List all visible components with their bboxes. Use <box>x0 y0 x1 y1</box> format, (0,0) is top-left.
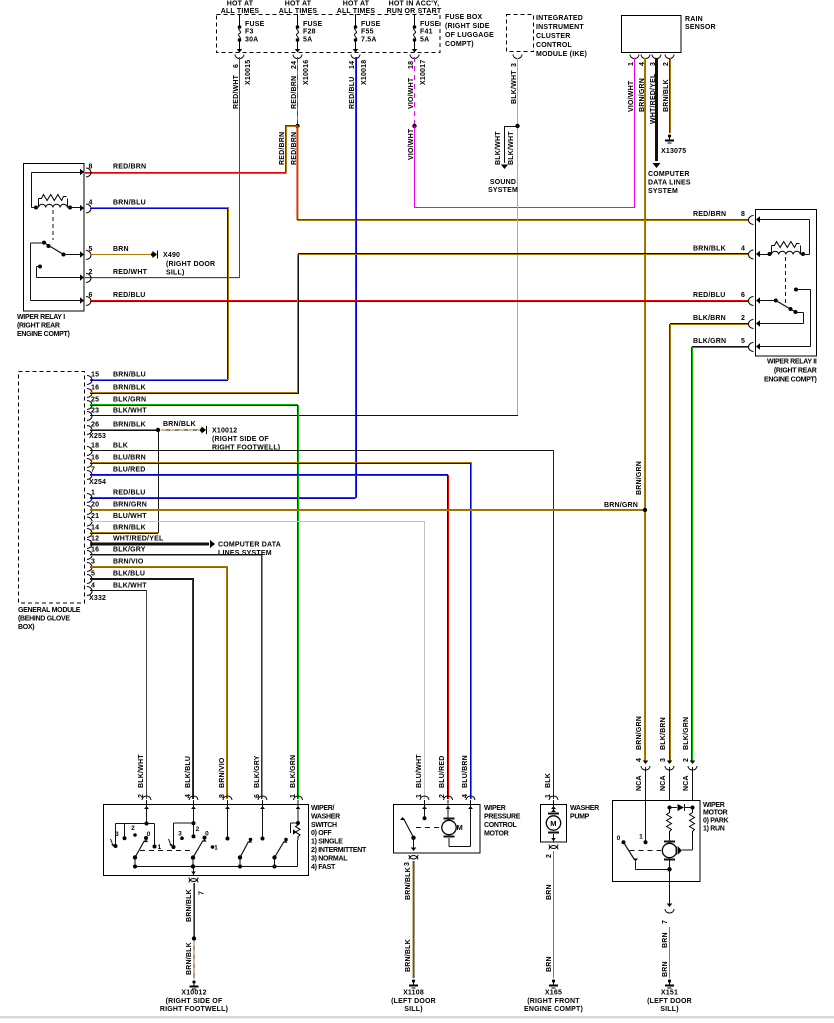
washer pump top connector <box>549 796 558 800</box>
switch group C internals <box>227 805 229 838</box>
svg-text:30A: 30A <box>245 37 258 44</box>
wire WHT/RED/YEL rain sensor pin 3 to computer data lines <box>655 58 658 161</box>
svg-text:BLK/GRN: BLK/GRN <box>693 338 726 345</box>
junction VIO/WHT <box>412 124 416 128</box>
wire RED/BRN fuse F28 dashed segment <box>297 57 299 126</box>
ground X10012 (right side of right footwell) <box>192 980 195 983</box>
svg-text:7.5A: 7.5A <box>361 37 377 44</box>
wire BRN/VIO general module pin 3 to wiper washer switch pin 8 <box>90 566 228 568</box>
svg-text:(RIGHT SIDE OF: (RIGHT SIDE OF <box>212 436 269 443</box>
switch pin 7 bottom connector <box>189 878 198 882</box>
wiper motor box <box>613 801 701 882</box>
wire BRN/BLK rain sensor pin 2 to ground X13075 <box>669 58 671 133</box>
wire BRN/BLK pressure motor pin 3 to ground X1108 <box>412 861 414 978</box>
svg-text:SYSTEM: SYSTEM <box>648 188 678 195</box>
svg-text:ALL TIMES: ALL TIMES <box>221 8 260 15</box>
junction X253 <box>156 428 160 432</box>
general module box <box>19 372 85 604</box>
svg-text:OF LUGGAGE: OF LUGGAGE <box>445 32 494 39</box>
wire RED/BLU relay I pin 6 to relay II pin 6 <box>90 300 748 302</box>
general module pin 4 (BLK/WHT) connector <box>87 587 92 596</box>
wire BRN wiper motor pin 7 to ground X151 <box>669 927 671 978</box>
relay I pin 2 contact <box>38 265 42 269</box>
washer pump bottom connector <box>549 845 558 849</box>
svg-text:BLK/GRY: BLK/GRY <box>113 547 146 554</box>
wiper motor top connector <box>667 761 673 765</box>
pressure motor motor M <box>442 820 456 834</box>
switch top connector <box>189 796 198 800</box>
svg-text:26: 26 <box>91 422 99 429</box>
svg-text:RED/BRN: RED/BRN <box>291 76 298 109</box>
svg-text:7: 7 <box>91 467 95 474</box>
fuse F41 5A <box>414 14 416 26</box>
fuse F3 30A <box>239 14 241 26</box>
svg-text:F55: F55 <box>361 29 374 36</box>
wiper motor dashed link <box>630 850 662 852</box>
svg-text:BRN/VIO: BRN/VIO <box>219 757 226 788</box>
svg-text:M: M <box>550 819 556 828</box>
ground X1108 (left door sill) <box>412 979 415 982</box>
pressure motor top connector <box>444 796 453 800</box>
svg-text:3: 3 <box>91 559 95 566</box>
svg-text:VIO/WHT: VIO/WHT <box>408 128 415 160</box>
svg-text:1) RUN: 1) RUN <box>703 826 725 833</box>
wire BLK/GRY general module pin 16 to wiper washer switch pin 6 <box>90 554 263 556</box>
svg-text:HOT IN ACC'Y,: HOT IN ACC'Y, <box>389 1 440 8</box>
general module pin 23 (BLK/WHT) connector <box>87 412 92 421</box>
svg-text:BLU/BRN: BLU/BRN <box>113 455 146 462</box>
svg-text:1: 1 <box>628 62 635 66</box>
svg-text:RED/BLU: RED/BLU <box>693 292 726 299</box>
svg-text:BRN: BRN <box>662 932 669 948</box>
wire BRN/BLK general module pin 16 to relay II pin 4 <box>90 392 298 394</box>
junction BLK/WHT sound system branch <box>515 124 519 128</box>
svg-text:X490: X490 <box>163 252 180 259</box>
svg-text:BLK/BRN: BLK/BRN <box>660 717 667 750</box>
svg-text:RUN OR START: RUN OR START <box>387 8 442 15</box>
svg-text:BRN/BLK: BRN/BLK <box>405 939 412 972</box>
washer pump box <box>541 805 567 843</box>
fuse box (right side of luggage compt) <box>217 15 441 53</box>
svg-text:6: 6 <box>89 292 93 299</box>
relay I coil-arm dashed link <box>52 210 54 240</box>
svg-text:BLU/WHT: BLU/WHT <box>416 754 423 788</box>
svg-text:BRN/BLK: BRN/BLK <box>405 867 412 900</box>
svg-text:ENGINE COMPT): ENGINE COMPT) <box>17 331 70 338</box>
svg-text:DATA LINES: DATA LINES <box>648 180 691 187</box>
svg-text:5: 5 <box>741 338 745 345</box>
svg-text:2: 2 <box>138 794 145 798</box>
svg-text:RED/BRN: RED/BRN <box>693 211 726 218</box>
svg-text:BRN/GRN: BRN/GRN <box>636 461 643 495</box>
svg-text:24: 24 <box>291 61 298 69</box>
wiper relay II box <box>756 210 817 357</box>
fuse F28 5A <box>297 14 299 26</box>
svg-text:BRN/BLK: BRN/BLK <box>113 525 146 532</box>
svg-text:BRN/GRN: BRN/GRN <box>113 502 147 509</box>
svg-text:RIGHT FOOTWELL): RIGHT FOOTWELL) <box>160 1006 228 1013</box>
svg-text:1) SINGLE: 1) SINGLE <box>311 839 343 846</box>
svg-text:X10015: X10015 <box>245 60 252 85</box>
wire BRN/BLK dashed to ground X10012 <box>193 941 195 979</box>
wire BRN washer pump pin 2 to ground X165 <box>553 851 555 978</box>
svg-text:X151: X151 <box>661 990 678 997</box>
svg-text:3: 3 <box>178 831 182 838</box>
svg-text:COMPUTER DATA: COMPUTER DATA <box>218 542 281 549</box>
wire BLU/WHT general module pin 21 to pressure motor pin 1 <box>90 521 425 523</box>
svg-text:23: 23 <box>91 408 99 415</box>
wire BRN relay I pin 5 to X490 <box>90 254 153 256</box>
relay II arm contact to pin 2 <box>796 312 804 314</box>
svg-text:2: 2 <box>741 315 745 322</box>
svg-text:COMPT): COMPT) <box>445 41 474 48</box>
svg-text:4: 4 <box>91 583 95 590</box>
svg-text:RED/WHT: RED/WHT <box>113 269 148 276</box>
inline connector X490 (right door sill) <box>151 253 155 257</box>
wire BRN/BLK dashed to X10012 <box>161 429 202 431</box>
switch intermittent resistor from pin 1 <box>297 805 299 822</box>
svg-text:ALL TIMES: ALL TIMES <box>337 8 376 15</box>
svg-text:X1108: X1108 <box>403 990 424 997</box>
svg-text:X10012: X10012 <box>212 428 237 435</box>
wiper motor top connector <box>690 761 696 765</box>
svg-text:F3: F3 <box>245 29 254 36</box>
svg-text:HOT AT: HOT AT <box>227 1 254 8</box>
wire RED/BRN branch to wiper relay I pin 8 <box>285 125 298 127</box>
svg-text:BLK/WHT: BLK/WHT <box>495 131 502 165</box>
relay II internal: pin8 feed <box>760 219 810 221</box>
svg-text:5: 5 <box>91 571 95 578</box>
relay II pin 5 connector <box>756 343 760 349</box>
general module pin 12 (WHT/RED/YEL) connector <box>87 540 92 549</box>
svg-text:WIPER: WIPER <box>703 802 725 809</box>
wire BLU/BRN general module pin 16 to pressure motor pin 4 <box>90 462 472 464</box>
svg-text:BRN/BLK: BRN/BLK <box>186 942 193 975</box>
svg-text:5: 5 <box>89 246 93 253</box>
relay II pin 6 connector <box>756 297 760 303</box>
svg-text:BOX): BOX) <box>18 624 34 631</box>
svg-text:BRN/BLK: BRN/BLK <box>163 421 196 428</box>
svg-text:6: 6 <box>741 292 745 299</box>
svg-text:BRN/BLU: BRN/BLU <box>113 200 146 207</box>
wire BLK/WHT general module pin 4 to wiper washer switch pin 2 <box>90 590 147 592</box>
svg-text:(RIGHT REAR: (RIGHT REAR <box>17 323 60 330</box>
svg-text:1: 1 <box>214 845 218 852</box>
svg-text:SILL): SILL) <box>660 1006 679 1013</box>
svg-text:X165: X165 <box>545 990 562 997</box>
svg-text:BLK/WHT: BLK/WHT <box>508 131 515 165</box>
relay II coil-arm dashed link <box>785 257 787 303</box>
svg-text:X10018: X10018 <box>361 60 368 85</box>
svg-text:18: 18 <box>91 443 99 450</box>
wiper motor top connector <box>643 761 649 765</box>
wire RED/BLU fuse F55 to general module pin 1 <box>355 57 357 498</box>
svg-text:5A: 5A <box>420 37 429 44</box>
svg-text:16: 16 <box>91 385 99 392</box>
wire RED/WHT fuse F3 to wiper relay I pin 2 <box>239 57 241 278</box>
svg-text:15: 15 <box>91 372 99 379</box>
svg-text:8: 8 <box>89 164 93 171</box>
relay II upper contact to pin 5 <box>794 288 798 292</box>
svg-text:WASHER: WASHER <box>311 813 340 820</box>
general module pin 18 (BLK) connector <box>87 447 92 456</box>
svg-text:BLK: BLK <box>545 773 552 788</box>
general module pin 26 (BRN/BLK) connector <box>87 426 92 435</box>
wiper washer switch box <box>104 805 309 876</box>
svg-text:4: 4 <box>462 794 469 798</box>
svg-text:2: 2 <box>683 758 690 762</box>
pressure motor switch <box>424 805 426 818</box>
svg-text:X10017: X10017 <box>420 60 427 85</box>
svg-text:BLK/BLU: BLK/BLU <box>185 756 192 788</box>
svg-text:1: 1 <box>91 490 95 497</box>
general module pin 20 (BRN/GRN) connector <box>87 506 92 515</box>
svg-text:BRN/VIO: BRN/VIO <box>113 559 144 566</box>
svg-text:1: 1 <box>545 794 552 798</box>
svg-text:GENERAL MODULE: GENERAL MODULE <box>18 607 81 614</box>
svg-text:(LEFT DOOR: (LEFT DOOR <box>647 998 692 1005</box>
svg-text:PUMP: PUMP <box>570 814 590 821</box>
svg-text:14: 14 <box>349 61 356 69</box>
general module pin 16 (BRN/BLK) connector <box>87 389 92 398</box>
svg-text:F28: F28 <box>303 29 316 36</box>
svg-text:NCA: NCA <box>636 775 643 791</box>
svg-text:(LEFT DOOR: (LEFT DOOR <box>391 998 436 1005</box>
svg-text:ALL TIMES: ALL TIMES <box>279 8 318 15</box>
svg-text:16: 16 <box>91 455 99 462</box>
svg-text:BLK/WHT: BLK/WHT <box>113 408 147 415</box>
svg-text:BLK/GRN: BLK/GRN <box>683 717 690 750</box>
svg-text:4: 4 <box>741 246 745 253</box>
svg-text:NCA: NCA <box>683 775 690 791</box>
svg-text:X10016: X10016 <box>303 60 310 85</box>
svg-text:BRN/GRN: BRN/GRN <box>604 502 638 509</box>
general module pin 14 (BRN/BLK) connector <box>87 529 92 538</box>
switch common bus to pin 7 <box>135 866 298 868</box>
wire BLK/BLU general module pin 5 to wiper washer switch pin 4 <box>90 578 194 580</box>
svg-text:F41: F41 <box>420 29 433 36</box>
washer pump motor M <box>553 805 555 813</box>
fuse F55 7.5A <box>355 14 357 26</box>
pressure motor pin 4 internal path <box>470 805 472 847</box>
svg-text:BLU/BRN: BLU/BRN <box>462 755 469 788</box>
svg-text:BRN/BLK: BRN/BLK <box>113 422 146 429</box>
wiper motor resistor left <box>667 808 672 837</box>
general module pin 16 (BLU/BRN) connector <box>87 459 92 468</box>
wire VIO/WHT to rain sensor pin 1 <box>414 126 416 207</box>
wire BRN/BLU relay I pin 4 to general module pin 15 <box>90 207 229 209</box>
svg-text:CLUSTER: CLUSTER <box>536 33 570 40</box>
pressure motor top connector <box>466 796 475 800</box>
switch group A internals <box>146 805 148 824</box>
rain sensor <box>622 16 682 53</box>
relay II pin 4 connector <box>756 251 760 257</box>
svg-text:SILL): SILL) <box>166 270 185 277</box>
svg-text:BLU/WHT: BLU/WHT <box>113 513 147 520</box>
relay II coil with parallel resistor <box>768 252 772 256</box>
pressure motor dashed link <box>416 827 440 829</box>
svg-text:2: 2 <box>89 269 93 276</box>
general module pin 15 (BRN/BLU) connector <box>87 376 92 385</box>
wire BLK/WHT IKE pin 3 to general module pin 23 <box>517 58 519 415</box>
svg-text:MOTOR: MOTOR <box>703 810 728 817</box>
svg-text:SENSOR: SENSOR <box>685 24 716 31</box>
svg-text:BLK/BLU: BLK/BLU <box>113 571 145 578</box>
svg-text:INSTRUMENT: INSTRUMENT <box>536 24 584 31</box>
svg-text:CONTROL: CONTROL <box>536 42 573 49</box>
wiper motor park switch <box>645 801 647 842</box>
switch arm link dashed <box>140 850 191 852</box>
svg-text:NCA: NCA <box>660 775 667 791</box>
svg-text:FUSE: FUSE <box>361 21 381 28</box>
switch group B internals <box>193 805 195 824</box>
svg-text:BLK/WHT: BLK/WHT <box>138 754 145 788</box>
svg-text:BRN: BRN <box>113 246 129 253</box>
svg-text:BLK/GRN: BLK/GRN <box>113 397 146 404</box>
svg-text:(RIGHT REAR: (RIGHT REAR <box>774 368 817 375</box>
svg-text:FUSE: FUSE <box>245 21 265 28</box>
wire BRN/BLK general module pin 26 to X253 junction <box>90 429 156 431</box>
svg-text:INTEGRATED: INTEGRATED <box>536 15 583 22</box>
svg-text:BLK/WHT: BLK/WHT <box>113 583 147 590</box>
svg-text:RED/BLU: RED/BLU <box>349 76 356 109</box>
svg-text:HOT AT: HOT AT <box>285 1 312 8</box>
svg-text:2: 2 <box>196 826 200 833</box>
svg-text:5A: 5A <box>303 37 312 44</box>
wire BRN/BLK switch pin 7 to ground X10012 <box>193 883 195 937</box>
svg-text:2: 2 <box>131 825 135 832</box>
svg-text:7: 7 <box>199 891 206 895</box>
svg-text:WIPER RELAY II: WIPER RELAY II <box>767 359 817 366</box>
svg-text:0) OFF: 0) OFF <box>311 830 332 837</box>
svg-text:RAIN: RAIN <box>685 16 703 23</box>
svg-text:SILL): SILL) <box>404 1006 423 1013</box>
relay II pin 8 connector <box>756 216 760 222</box>
svg-text:BRN/BLK: BRN/BLK <box>186 889 193 922</box>
wire BLK X253 junction down to general module pin 14 <box>158 430 160 533</box>
relay I pin 5 connector <box>80 251 84 257</box>
svg-text:WIPER: WIPER <box>484 805 506 812</box>
wire WHT/RED/YEL general module pin 12 to computer data lines <box>90 543 209 546</box>
svg-text:FUSE: FUSE <box>303 21 323 28</box>
ground X165 (right front engine compt) <box>552 979 555 982</box>
wiper motor output to pin 7 <box>669 858 671 906</box>
svg-text:BLK/BRN: BLK/BRN <box>693 315 726 322</box>
svg-text:12: 12 <box>91 536 99 543</box>
svg-text:1: 1 <box>158 844 162 851</box>
general module pin 25 (BLK/GRN) connector <box>87 401 92 410</box>
relay I switch common rail to pin 6 <box>31 242 45 244</box>
wiper motor bottom connector <box>667 904 673 908</box>
switch top connector <box>294 796 303 800</box>
junction BRN/BLK at X10012 <box>192 936 196 940</box>
wire RED/BRN fuse F28 to wiper relay II pin 8 <box>296 126 298 220</box>
svg-text:18: 18 <box>408 61 415 69</box>
wiper motor resistor right <box>690 808 695 837</box>
page footer divider <box>0 1016 834 1019</box>
ground X13075 <box>668 134 671 137</box>
svg-text:(RIGHT SIDE: (RIGHT SIDE <box>445 23 490 30</box>
svg-text:HOT AT: HOT AT <box>343 1 370 8</box>
svg-text:X254: X254 <box>89 479 106 486</box>
svg-text:16: 16 <box>91 547 99 554</box>
switch top connector <box>142 796 151 800</box>
svg-text:ENGINE COMPT): ENGINE COMPT) <box>764 377 817 384</box>
wire BRN/GRN general module pin 20 to junction <box>90 509 645 511</box>
svg-text:6: 6 <box>233 64 240 68</box>
svg-text:(RIGHT DOOR: (RIGHT DOOR <box>166 261 215 268</box>
svg-text:(BEHIND GLOVE: (BEHIND GLOVE <box>18 616 70 623</box>
relay I pin 8 connector <box>80 169 84 175</box>
svg-text:BLK/GRN: BLK/GRN <box>290 755 297 788</box>
svg-text:RED/BRN: RED/BRN <box>279 132 286 165</box>
svg-text:BRN/GRN: BRN/GRN <box>636 716 643 750</box>
wire VIO/WHT fuse F41 dashed segment <box>414 57 416 126</box>
svg-text:MOTOR: MOTOR <box>484 831 509 838</box>
svg-text:MODULE (IKE): MODULE (IKE) <box>536 51 587 58</box>
svg-text:WHT/RED/YEL: WHT/RED/YEL <box>113 536 164 543</box>
wiper motor motor circle <box>662 843 676 857</box>
svg-text:X332: X332 <box>89 595 106 602</box>
svg-text:0) PARK: 0) PARK <box>703 818 729 825</box>
switch top connector <box>258 796 267 800</box>
svg-text:BRN/BLK: BRN/BLK <box>693 246 726 253</box>
svg-text:0: 0 <box>617 835 621 842</box>
svg-text:BRN/BLK: BRN/BLK <box>113 385 146 392</box>
svg-text:2: 2 <box>663 62 670 66</box>
wire BRN/GRN rain sensor pin 4 down to wiper motor pin 4 <box>644 58 646 762</box>
wire BLK/GRN general module pin 25 to wiper washer switch pin 1 <box>90 404 298 406</box>
relay I pin 4 connector <box>80 205 84 211</box>
svg-text:RED/BLU: RED/BLU <box>113 292 146 299</box>
general module pin 5 (BLK/BLU) connector <box>87 575 92 584</box>
relay II switch arm <box>774 299 778 303</box>
switch top connector <box>223 796 232 800</box>
svg-text:2) INTERMITTENT: 2) INTERMITTENT <box>311 847 367 854</box>
wire BLU/RED general module pin 7 to pressure motor pin 2 <box>90 474 448 476</box>
general module pin 16 (BLK/GRY) connector <box>87 551 92 560</box>
general module pin 3 (BRN/VIO) connector <box>87 563 92 572</box>
junction BRN/GRN <box>643 508 647 512</box>
svg-text:3: 3 <box>404 862 411 866</box>
switch group D internals <box>262 805 264 838</box>
svg-text:SOUND: SOUND <box>490 179 516 186</box>
general module pin 7 (BLU/RED) connector <box>87 471 92 480</box>
general module pin 1 (RED/BLU) connector <box>87 494 92 503</box>
svg-text:PRESSURE: PRESSURE <box>484 814 521 821</box>
integrated instrument cluster control module (IKE) <box>507 15 534 52</box>
svg-text:WIPER/: WIPER/ <box>311 805 334 812</box>
svg-text:BLU/RED: BLU/RED <box>113 467 146 474</box>
svg-text:WASHER: WASHER <box>570 805 599 812</box>
svg-text:BRN: BRN <box>546 956 553 972</box>
general module pin 21 (BLU/WHT) connector <box>87 517 92 526</box>
ground X151 (left door sill) <box>668 979 671 982</box>
relay I internal: pin8 feed to coil <box>32 172 81 174</box>
svg-text:X253: X253 <box>89 433 106 440</box>
svg-text:(RIGHT FRONT: (RIGHT FRONT <box>527 998 580 1005</box>
svg-text:VIO/WHT: VIO/WHT <box>408 77 415 109</box>
svg-text:20: 20 <box>91 502 99 509</box>
svg-text:ENGINE COMPT): ENGINE COMPT) <box>524 1006 583 1013</box>
wiper motor internal top bus with diode <box>668 806 672 810</box>
wiper relay I box <box>24 164 85 312</box>
svg-text:RED/BRN: RED/BRN <box>113 164 146 171</box>
wiper pressure control motor box <box>394 805 481 854</box>
svg-text:3: 3 <box>115 831 119 838</box>
svg-text:BRN/BLK: BRN/BLK <box>663 79 670 112</box>
svg-text:BRN: BRN <box>546 884 553 900</box>
